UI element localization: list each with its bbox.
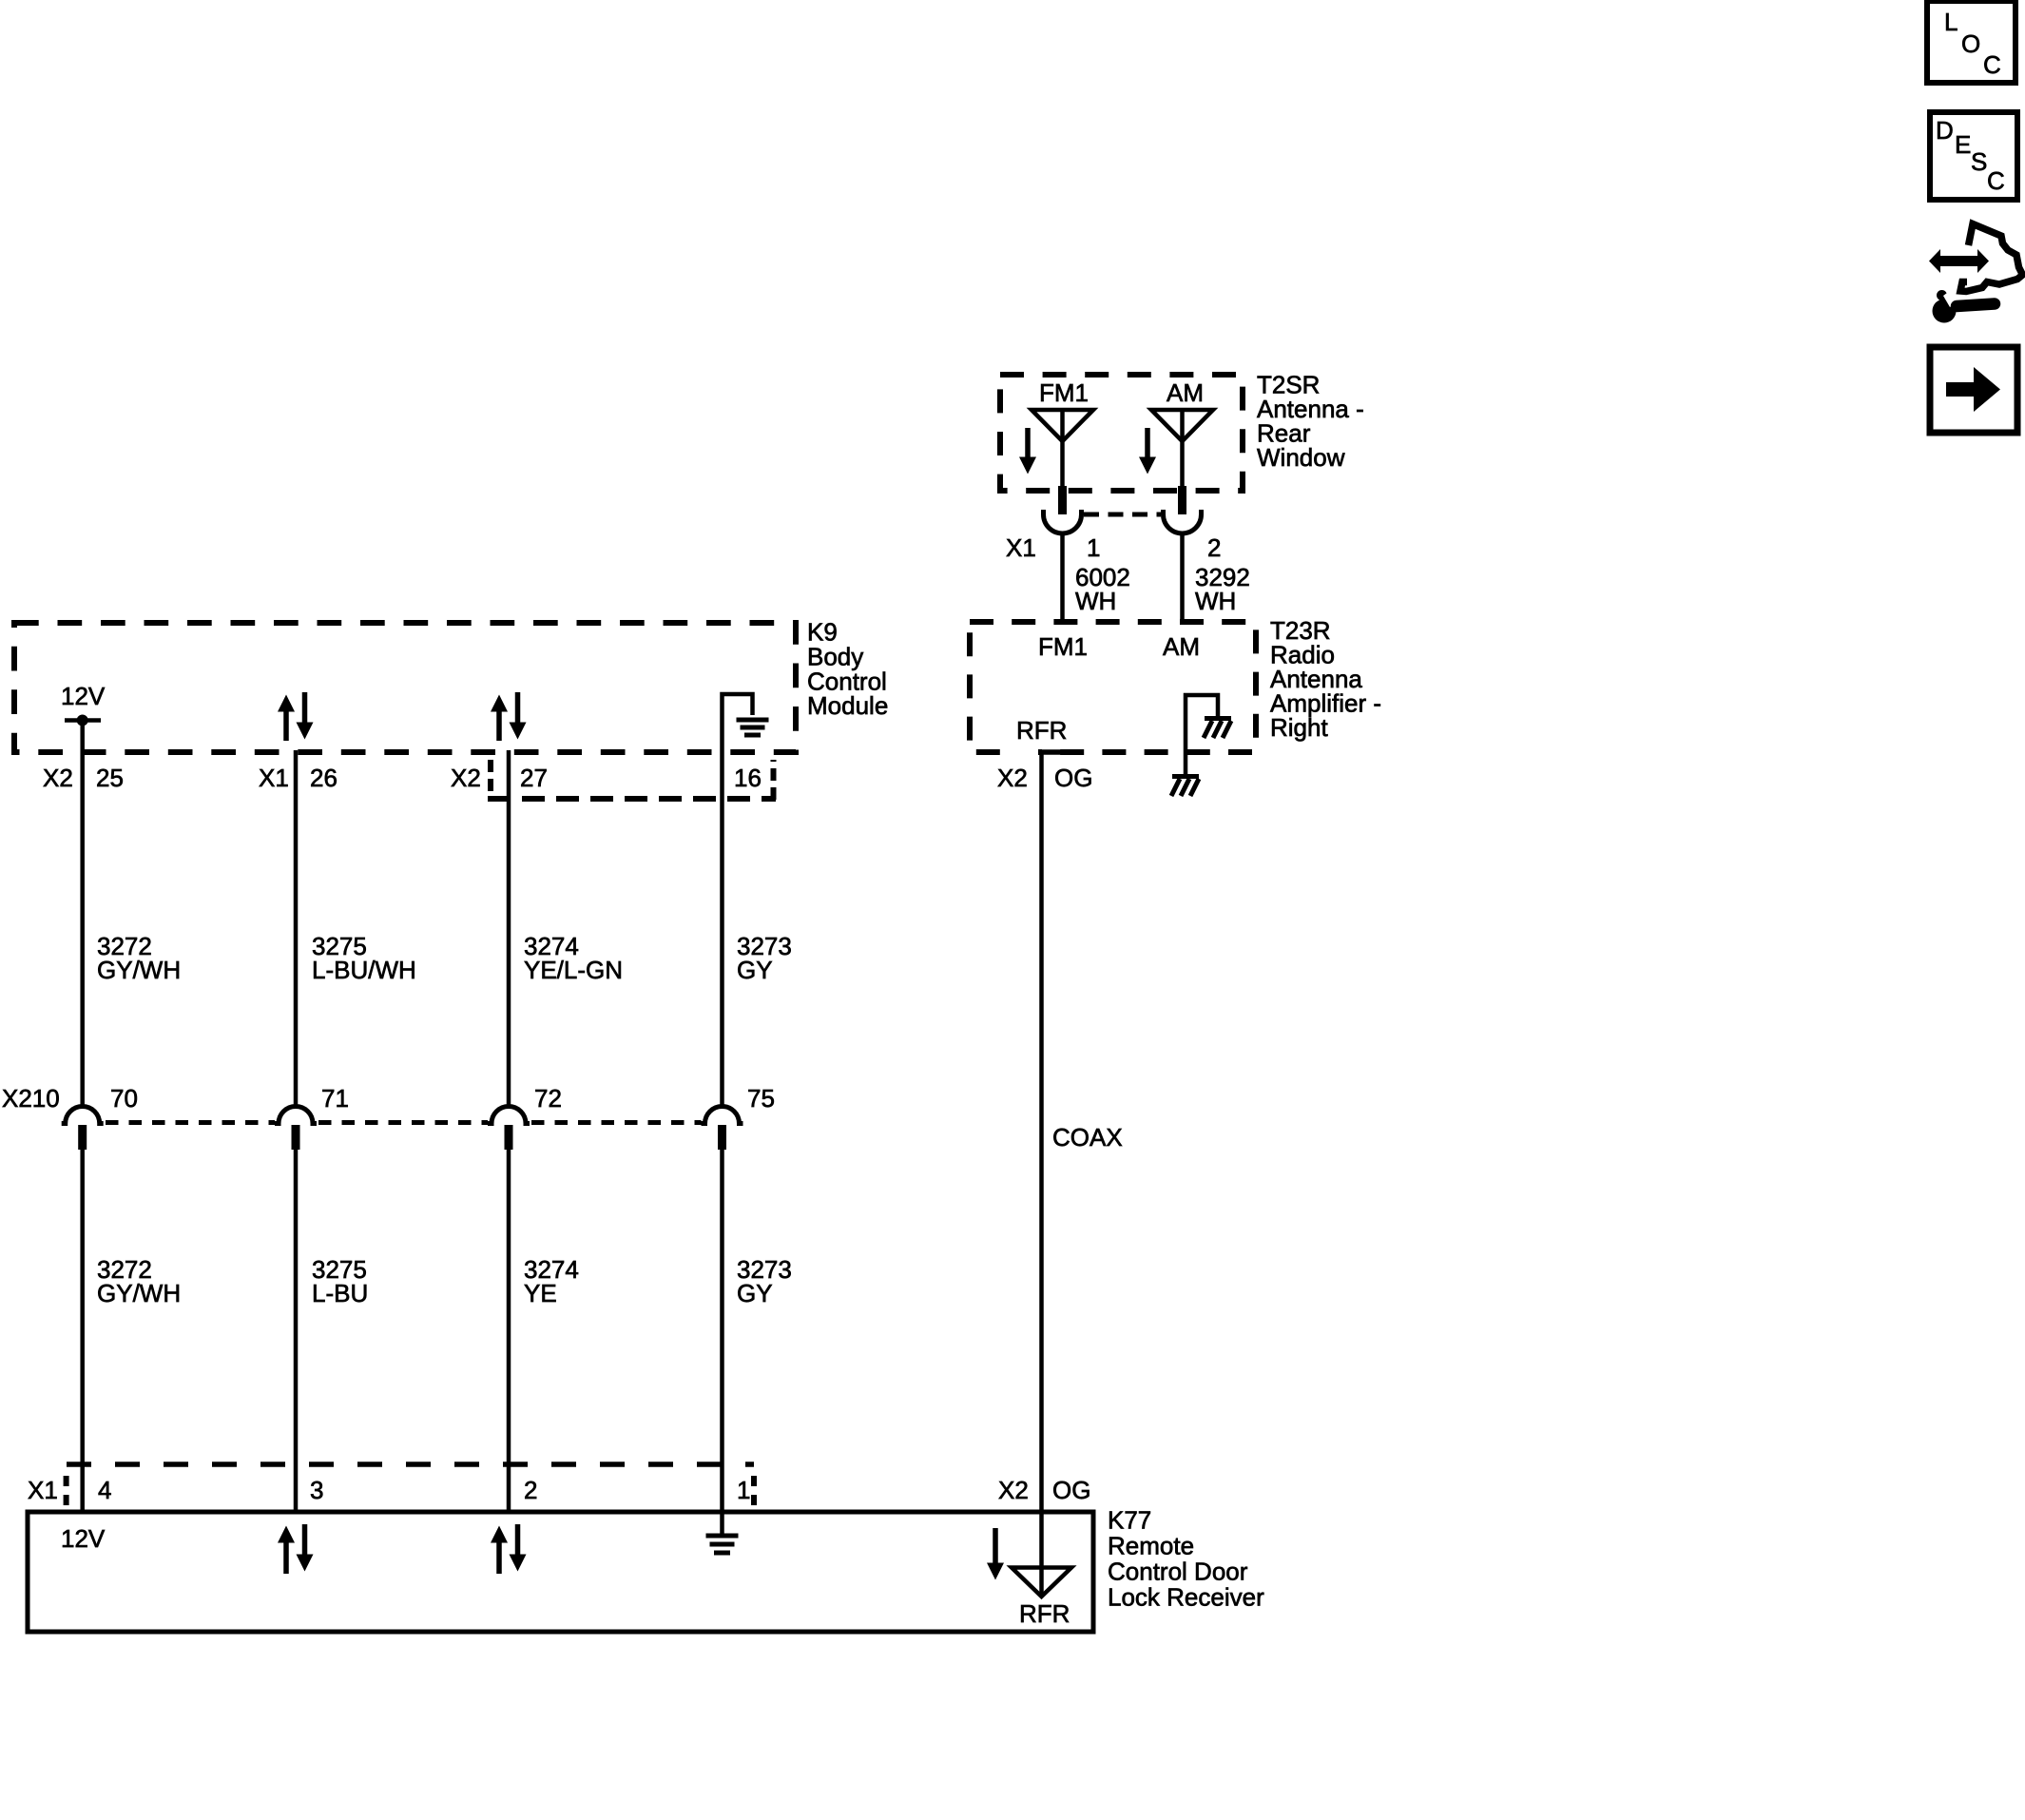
svg-text:RFR: RFR	[1019, 1599, 1070, 1628]
svg-text:12V: 12V	[61, 1524, 106, 1553]
svg-text:YE/L-GN: YE/L-GN	[524, 956, 623, 984]
svg-text:L-BU/WH: L-BU/WH	[312, 956, 416, 984]
svg-text:S: S	[1971, 147, 1987, 176]
svg-text:2: 2	[524, 1476, 537, 1504]
svg-text:X210: X210	[2, 1084, 60, 1113]
svg-text:Control Door: Control Door	[1108, 1558, 1248, 1586]
svg-text:Lock Receiver: Lock Receiver	[1108, 1583, 1264, 1612]
svg-text:OG: OG	[1054, 764, 1092, 792]
svg-text:X1: X1	[259, 764, 289, 792]
svg-text:26: 26	[310, 764, 337, 792]
svg-text:GY: GY	[737, 956, 773, 984]
svg-text:70: 70	[110, 1084, 138, 1113]
svg-text:WH: WH	[1195, 587, 1236, 615]
svg-text:GY: GY	[737, 1279, 773, 1307]
svg-text:FM1: FM1	[1038, 632, 1088, 661]
svg-text:4: 4	[98, 1476, 111, 1504]
svg-text:2: 2	[1207, 533, 1221, 562]
svg-text:OG: OG	[1052, 1476, 1090, 1504]
svg-text:L: L	[1944, 8, 1957, 36]
svg-text:X2: X2	[451, 764, 481, 792]
svg-text:E: E	[1955, 130, 1971, 159]
svg-text:X2: X2	[997, 764, 1028, 792]
svg-text:Window: Window	[1257, 443, 1345, 472]
svg-text:27: 27	[520, 764, 548, 792]
svg-text:1: 1	[737, 1476, 750, 1504]
svg-text:Module: Module	[807, 691, 888, 720]
svg-text:Right: Right	[1270, 713, 1328, 742]
svg-text:D: D	[1936, 116, 1954, 145]
svg-text:X1: X1	[1006, 533, 1036, 562]
svg-text:Remote: Remote	[1108, 1532, 1194, 1560]
svg-text:71: 71	[321, 1084, 349, 1113]
svg-text:GY/WH: GY/WH	[97, 956, 181, 984]
svg-text:COAX: COAX	[1052, 1123, 1123, 1152]
svg-text:12V: 12V	[61, 682, 106, 710]
svg-text:YE: YE	[524, 1279, 557, 1307]
svg-text:WH: WH	[1075, 587, 1116, 615]
svg-text:X2: X2	[43, 764, 73, 792]
svg-text:72: 72	[534, 1084, 562, 1113]
svg-text:RFR: RFR	[1016, 716, 1067, 745]
svg-text:75: 75	[747, 1084, 775, 1113]
svg-text:C: C	[1983, 50, 2001, 79]
svg-text:1: 1	[1087, 533, 1100, 562]
svg-text:K77: K77	[1108, 1506, 1151, 1535]
svg-text:AM: AM	[1163, 632, 1200, 661]
svg-text:16: 16	[734, 764, 762, 792]
svg-text:X1: X1	[28, 1476, 58, 1504]
svg-text:AM: AM	[1167, 378, 1204, 407]
svg-text:3: 3	[310, 1476, 323, 1504]
svg-text:C: C	[1987, 166, 2005, 195]
svg-text:25: 25	[96, 764, 124, 792]
svg-text:X2: X2	[998, 1476, 1029, 1504]
svg-text:GY/WH: GY/WH	[97, 1279, 181, 1307]
svg-text:FM1: FM1	[1039, 378, 1089, 407]
svg-text:L-BU: L-BU	[312, 1279, 368, 1307]
svg-text:O: O	[1961, 29, 1980, 58]
